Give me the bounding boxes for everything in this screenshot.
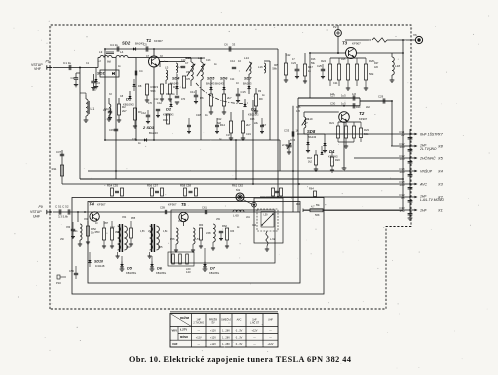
svg-text:2k2: 2k2 bbox=[366, 106, 371, 109]
svg-text:G1: G1 bbox=[92, 88, 96, 92]
svg-text:C7: C7 bbox=[185, 61, 189, 65]
svg-text:Obr. 10. Elektrické zapojenie: Obr. 10. Elektrické zapojenie tunera TES… bbox=[129, 355, 351, 364]
svg-text:C19: C19 bbox=[246, 132, 251, 136]
svg-text:L5: L5 bbox=[165, 66, 169, 70]
svg-text:1...28V: 1...28V bbox=[222, 343, 230, 346]
svg-text:2HČ/NHČ: 2HČ/NHČ bbox=[419, 155, 436, 160]
svg-text:1u5: 1u5 bbox=[352, 93, 357, 96]
svg-text:BA243: BA243 bbox=[170, 82, 179, 86]
svg-text:VHF: VHF bbox=[34, 67, 41, 71]
svg-text:KB105G: KB105G bbox=[156, 271, 166, 275]
svg-text:1u5: 1u5 bbox=[341, 101, 346, 105]
svg-text:T3: T3 bbox=[342, 41, 348, 46]
svg-text:L53: L53 bbox=[126, 245, 131, 249]
svg-text:R57: R57 bbox=[104, 223, 109, 225]
svg-text:R56 C57: R56 C57 bbox=[147, 184, 158, 188]
svg-text:R18: R18 bbox=[307, 156, 312, 160]
svg-text:C12: C12 bbox=[154, 98, 159, 101]
svg-text:X3: X3 bbox=[437, 181, 444, 186]
svg-text:0...3V: 0...3V bbox=[236, 330, 243, 333]
svg-text:220: 220 bbox=[399, 157, 405, 161]
svg-text:UHF: UHF bbox=[33, 215, 40, 219]
svg-text:P1: P1 bbox=[46, 60, 50, 64]
svg-text:R55: R55 bbox=[131, 218, 136, 220]
svg-text:AVC: AVC bbox=[419, 182, 427, 186]
svg-text:SMEČAJ: SMEČAJ bbox=[221, 319, 232, 322]
svg-text:1...28V: 1...28V bbox=[222, 336, 230, 339]
svg-text:R27: R27 bbox=[374, 62, 379, 65]
svg-text:C36: C36 bbox=[290, 138, 296, 142]
svg-text:L.62: L.62 bbox=[270, 237, 276, 241]
svg-text:220: 220 bbox=[399, 145, 405, 149]
svg-text:C12: C12 bbox=[141, 111, 146, 115]
svg-text:Ł.2TV: Ł.2TV bbox=[180, 328, 187, 332]
svg-text:R58 C58: R58 C58 bbox=[180, 184, 191, 188]
svg-text:6HF 1ŠSTP: 6HF 1ŠSTP bbox=[420, 131, 439, 136]
svg-text:C25: C25 bbox=[317, 64, 322, 68]
svg-text:VKV: VKV bbox=[172, 329, 178, 333]
svg-text:AVC: AVC bbox=[237, 319, 242, 322]
svg-text:+12V: +12V bbox=[196, 336, 202, 339]
svg-text:C64: C64 bbox=[252, 225, 257, 227]
svg-text:KB105G: KB105G bbox=[209, 271, 219, 275]
svg-text:C4 1k: C4 1k bbox=[110, 43, 118, 47]
svg-text:R6: R6 bbox=[200, 96, 204, 100]
svg-text:L3: L3 bbox=[99, 50, 103, 54]
svg-text:0...3V: 0...3V bbox=[236, 336, 243, 339]
svg-text:C10: C10 bbox=[181, 59, 186, 62]
svg-text:C11: C11 bbox=[190, 90, 195, 94]
svg-text:56K: 56K bbox=[315, 213, 320, 217]
svg-text:0...3V: 0...3V bbox=[236, 343, 243, 346]
svg-text:C56: C56 bbox=[69, 269, 74, 273]
svg-text:R61 C62: R61 C62 bbox=[232, 184, 243, 188]
svg-text:+12V: +12V bbox=[210, 336, 216, 339]
svg-text:2/10: 2/10 bbox=[282, 143, 288, 147]
svg-text:+12V: +12V bbox=[268, 343, 274, 346]
svg-text:R5: R5 bbox=[187, 77, 191, 81]
svg-text:56k: 56k bbox=[272, 67, 277, 71]
svg-text:22: 22 bbox=[400, 133, 405, 137]
svg-text:R16: R16 bbox=[311, 58, 316, 61]
svg-text:C61: C61 bbox=[202, 206, 207, 210]
svg-text:1k5: 1k5 bbox=[374, 66, 379, 69]
svg-text:1,56: 1,56 bbox=[140, 231, 145, 233]
svg-text:R20: R20 bbox=[356, 106, 361, 109]
svg-text:R9: R9 bbox=[259, 97, 263, 101]
svg-text:R21: R21 bbox=[329, 121, 334, 125]
svg-text:C12: C12 bbox=[157, 101, 162, 105]
svg-text:C14: C14 bbox=[230, 59, 235, 63]
svg-text:KF907: KF907 bbox=[154, 39, 163, 43]
svg-text:1N4148: 1N4148 bbox=[95, 264, 105, 268]
svg-text:X2: X2 bbox=[437, 194, 444, 199]
svg-text:X6: X6 bbox=[413, 33, 417, 37]
svg-text:R24: R24 bbox=[321, 59, 326, 63]
svg-text:L56: L56 bbox=[170, 237, 175, 241]
svg-text:L 60: L 60 bbox=[233, 214, 239, 218]
svg-text:R23: R23 bbox=[364, 128, 369, 132]
svg-text:C31: C31 bbox=[305, 118, 310, 121]
svg-text:SD7: SD7 bbox=[244, 77, 252, 81]
svg-text:10: 10 bbox=[238, 59, 241, 63]
svg-text:C15: C15 bbox=[241, 90, 247, 94]
svg-text:KF907: KF907 bbox=[359, 117, 368, 121]
svg-text:P2: P2 bbox=[333, 25, 337, 29]
svg-text:C6: C6 bbox=[224, 43, 228, 47]
svg-text:D8: D8 bbox=[138, 84, 142, 88]
svg-text:KF907: KF907 bbox=[168, 203, 177, 207]
svg-text:2.TV(JNO: 2.TV(JNO bbox=[193, 322, 204, 325]
svg-text:C59: C59 bbox=[160, 206, 165, 210]
svg-text:R54 C55: R54 C55 bbox=[107, 184, 118, 188]
svg-text:C16: C16 bbox=[132, 138, 137, 141]
svg-text:R11: R11 bbox=[52, 167, 57, 171]
svg-text:L6: L6 bbox=[179, 65, 182, 69]
svg-text:470: 470 bbox=[148, 102, 153, 105]
svg-text:VSTUP: VSTUP bbox=[30, 210, 42, 214]
svg-text:C5: C5 bbox=[143, 43, 147, 47]
svg-text:SD1: SD1 bbox=[97, 71, 106, 76]
svg-text:SD8: SD8 bbox=[307, 129, 316, 134]
svg-text:56k: 56k bbox=[364, 132, 369, 136]
svg-text:X1: X1 bbox=[437, 207, 443, 212]
svg-text:L.AČ ST: L.AČ ST bbox=[250, 322, 260, 325]
svg-text:6k8: 6k8 bbox=[107, 61, 112, 64]
svg-text:R20: R20 bbox=[335, 158, 340, 162]
svg-text:+12V: +12V bbox=[252, 330, 258, 333]
svg-text:143: 143 bbox=[186, 270, 191, 274]
svg-text:C50: C50 bbox=[66, 227, 71, 229]
svg-text:BA243 BA243: BA243 BA243 bbox=[206, 82, 224, 86]
svg-text:R17: R17 bbox=[308, 65, 313, 69]
svg-text:1u5: 1u5 bbox=[330, 93, 335, 96]
svg-text:D2: D2 bbox=[166, 107, 172, 112]
svg-text:33: 33 bbox=[232, 43, 236, 47]
svg-text:C63: C63 bbox=[230, 231, 235, 233]
svg-text:L18: L18 bbox=[395, 64, 400, 68]
svg-text:470: 470 bbox=[181, 98, 186, 101]
svg-text:2k7: 2k7 bbox=[246, 123, 251, 127]
svg-text:56K: 56K bbox=[151, 89, 156, 93]
svg-text:C10: C10 bbox=[104, 107, 109, 111]
svg-text:R60: R60 bbox=[199, 225, 204, 227]
svg-text:C24: C24 bbox=[333, 82, 338, 85]
svg-text:VNŠUP: VNŠUP bbox=[420, 168, 433, 173]
svg-text:KF907: KF907 bbox=[352, 42, 361, 46]
svg-text:+12V: +12V bbox=[210, 343, 216, 346]
svg-text:SD6: SD6 bbox=[220, 77, 228, 81]
svg-text:1...28V: 1...28V bbox=[222, 330, 230, 333]
svg-text:6k8: 6k8 bbox=[217, 122, 222, 125]
svg-text:X7: X7 bbox=[437, 131, 444, 136]
svg-text:R64: R64 bbox=[309, 187, 314, 191]
svg-text:3,3 5,6k: 3,3 5,6k bbox=[58, 215, 69, 219]
svg-text:L16: L16 bbox=[258, 65, 263, 69]
svg-text:1HF: 1HF bbox=[420, 208, 427, 212]
svg-text:R62: R62 bbox=[222, 224, 227, 228]
svg-text:ŠV: ŠV bbox=[211, 322, 215, 325]
svg-text:P9: P9 bbox=[39, 205, 43, 209]
svg-text:2k7: 2k7 bbox=[227, 96, 232, 100]
svg-text:2L.TV(JNO: 2L.TV(JNO bbox=[419, 147, 437, 151]
svg-text:C23: C23 bbox=[291, 61, 296, 65]
svg-text:R25: R25 bbox=[341, 58, 346, 61]
svg-text:220: 220 bbox=[399, 183, 405, 187]
svg-text:X5: X5 bbox=[437, 155, 444, 160]
svg-text:T5: T5 bbox=[181, 202, 187, 207]
svg-text:1k2: 1k2 bbox=[308, 160, 313, 164]
svg-text:C57: C57 bbox=[178, 221, 183, 223]
svg-text:KF907: KF907 bbox=[97, 203, 106, 207]
svg-text:+12V: +12V bbox=[210, 330, 216, 333]
svg-text:KB109G: KB109G bbox=[328, 155, 338, 159]
svg-text:C30: C30 bbox=[330, 101, 336, 105]
svg-text:C37: C37 bbox=[56, 150, 62, 154]
svg-text:P10: P10 bbox=[56, 281, 61, 285]
svg-text:L58: L58 bbox=[206, 231, 211, 235]
svg-text:KB105G: KB105G bbox=[126, 271, 136, 275]
svg-text:C13: C13 bbox=[206, 59, 211, 62]
svg-text:KB109G: KB109G bbox=[123, 103, 135, 107]
svg-text:C26: C26 bbox=[296, 106, 301, 109]
svg-text:BA243: BA243 bbox=[243, 82, 252, 86]
svg-text:C22: C22 bbox=[286, 54, 291, 57]
svg-text:REŽIM: REŽIM bbox=[180, 315, 190, 320]
svg-text:56k: 56k bbox=[369, 72, 374, 76]
svg-text:KB109G: KB109G bbox=[163, 113, 174, 117]
svg-text:X8: X8 bbox=[437, 143, 444, 148]
svg-text:R53: R53 bbox=[95, 230, 100, 234]
svg-text:SD10: SD10 bbox=[94, 260, 103, 264]
svg-text:L4: L4 bbox=[120, 50, 124, 54]
svg-text:T4: T4 bbox=[89, 202, 95, 207]
svg-text:L14: L14 bbox=[244, 56, 249, 60]
svg-text:C2: C2 bbox=[71, 76, 75, 80]
svg-text:L52: L52 bbox=[110, 225, 115, 229]
svg-text:C14: C14 bbox=[230, 78, 235, 81]
svg-text:C53: C53 bbox=[84, 219, 89, 221]
svg-text:C1 1k: C1 1k bbox=[63, 61, 72, 65]
svg-text:1u5: 1u5 bbox=[341, 94, 346, 98]
svg-text:R13: R13 bbox=[250, 118, 255, 121]
svg-text:UHF: UHF bbox=[172, 342, 178, 346]
svg-text:L1: L1 bbox=[91, 107, 95, 111]
svg-text:R10: R10 bbox=[163, 118, 168, 122]
svg-text:2k7: 2k7 bbox=[122, 109, 127, 113]
svg-text:SD5: SD5 bbox=[207, 77, 215, 81]
svg-text:D3: D3 bbox=[251, 107, 257, 112]
svg-text:SD4: SD4 bbox=[172, 77, 180, 81]
svg-text:C33: C33 bbox=[284, 129, 290, 133]
svg-text:R3: R3 bbox=[154, 85, 158, 89]
svg-text:SD2: SD2 bbox=[122, 41, 131, 46]
svg-text:R12: R12 bbox=[217, 118, 222, 121]
svg-text:C15: C15 bbox=[109, 128, 114, 132]
svg-text:R63: R63 bbox=[296, 204, 301, 206]
svg-text:C 51 C 52: C 51 C 52 bbox=[55, 205, 69, 209]
svg-text:C17: C17 bbox=[226, 134, 231, 137]
svg-text:1u5: 1u5 bbox=[296, 110, 301, 113]
svg-text:C54: C54 bbox=[122, 217, 127, 219]
svg-text:X4: X4 bbox=[437, 168, 444, 173]
svg-text:T1: T1 bbox=[146, 38, 152, 43]
svg-text:BA243: BA243 bbox=[308, 135, 317, 139]
svg-text:220: 220 bbox=[399, 170, 405, 174]
svg-text:L55: L55 bbox=[158, 245, 163, 249]
svg-text:M1: M1 bbox=[236, 188, 240, 192]
svg-text:150: 150 bbox=[400, 209, 405, 213]
svg-text:C29: C29 bbox=[378, 95, 384, 99]
svg-text:BA243: BA243 bbox=[149, 131, 158, 135]
svg-text:UHF: UHF bbox=[268, 319, 273, 322]
svg-text:L59: L59 bbox=[264, 214, 269, 217]
svg-text:T2: T2 bbox=[359, 111, 365, 116]
svg-text:2 SD3: 2 SD3 bbox=[142, 125, 155, 130]
svg-text:4,7: 4,7 bbox=[311, 205, 315, 209]
svg-text:C4: C4 bbox=[139, 69, 143, 73]
